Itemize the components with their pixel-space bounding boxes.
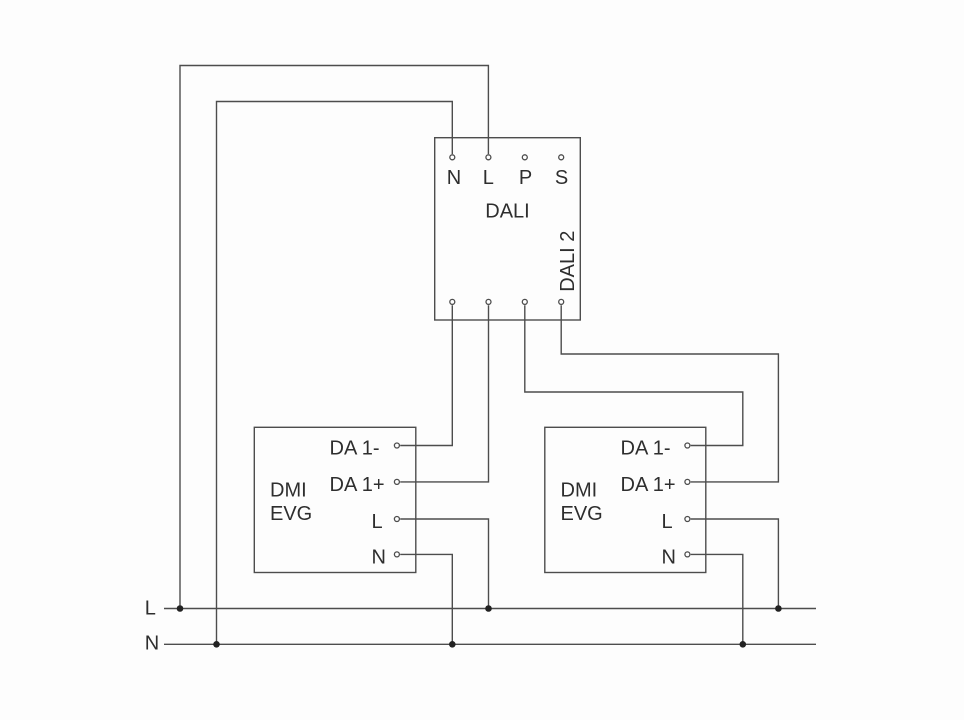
wire DALI bottom terminal 2 to left EVG DA 1+ [400, 305, 488, 482]
svg-text:L: L [145, 598, 156, 620]
DALI top terminal L [486, 155, 491, 160]
DALI bottom terminal 2 [486, 299, 491, 304]
right EVG terminal DA 1+ [685, 479, 690, 484]
svg-text:L: L [483, 167, 494, 189]
wire N-rail to DALI terminal N (inner loop) [217, 102, 453, 645]
left ballast DMI EVG box [254, 427, 415, 572]
wire left EVG L to L rail [400, 519, 488, 609]
right EVG terminal DA 1- [685, 443, 690, 448]
left EVG terminal DA 1+ [394, 479, 399, 484]
DALI bottom terminal 3 [522, 299, 527, 304]
svg-text:DMI: DMI [270, 480, 307, 502]
svg-text:DALI 2: DALI 2 [557, 231, 579, 292]
left EVG terminal L [394, 517, 399, 522]
svg-text:N: N [447, 167, 461, 189]
wire L-rail to DALI terminal L (outer loop) [180, 66, 488, 609]
svg-text:DALI: DALI [485, 201, 529, 223]
junction dot L rail / right EVG [775, 605, 782, 612]
DALI bottom terminal 4 (DALI 2) [559, 299, 564, 304]
junction dot N rail / left EVG [449, 641, 456, 648]
svg-text:DA 1-: DA 1- [621, 437, 671, 459]
right EVG terminal L [685, 517, 690, 522]
svg-text:N: N [662, 546, 676, 568]
svg-text:L: L [372, 511, 383, 533]
junction dot L rail / left feed [177, 605, 184, 612]
wire right EVG L to L rail [691, 519, 779, 609]
svg-text:EVG: EVG [561, 503, 603, 525]
DALI bottom terminal 1 [450, 299, 455, 304]
DALI control unit U1 box [435, 138, 581, 320]
wire left EVG N to N rail [400, 554, 452, 644]
DALI top terminal P [522, 155, 527, 160]
svg-text:L: L [662, 511, 673, 533]
svg-text:DA 1+: DA 1+ [330, 474, 385, 496]
svg-text:N: N [372, 546, 386, 568]
wire DALI bottom terminal 1 to left EVG DA 1- [400, 305, 452, 445]
svg-text:DA 1+: DA 1+ [621, 474, 676, 496]
svg-text:EVG: EVG [270, 503, 312, 525]
L supply rail [164, 608, 816, 610]
left EVG terminal DA 1- [394, 443, 399, 448]
left EVG terminal N [394, 552, 399, 557]
svg-text:DMI: DMI [561, 480, 598, 502]
wire DALI bottom terminal 3 to right EVG DA 1- [525, 305, 743, 445]
right EVG terminal N [685, 552, 690, 557]
DALI top terminal S [559, 155, 564, 160]
wire DALI bottom terminal 4 to right EVG DA 1+ [561, 305, 778, 482]
junction dot N rail / right EVG [740, 641, 747, 648]
junction dot N rail / left feed [213, 641, 220, 648]
svg-text:S: S [555, 167, 568, 189]
junction dot L rail / left EVG [485, 605, 492, 612]
wire right EVG N to N rail [691, 554, 743, 644]
N supply rail [164, 643, 816, 645]
DALI top terminal N [450, 155, 455, 160]
right ballast DMI EVG box [545, 427, 706, 572]
svg-text:DA 1-: DA 1- [330, 437, 380, 459]
svg-text:P: P [519, 167, 532, 189]
svg-text:N: N [145, 633, 159, 655]
